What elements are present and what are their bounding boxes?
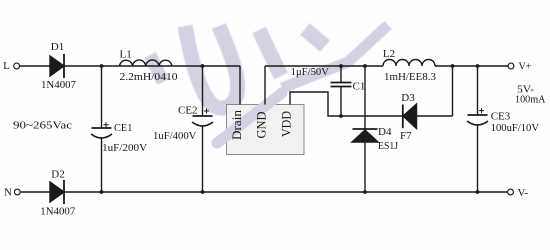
svg-text:2.2mH/0410: 2.2mH/0410 [120, 71, 179, 83]
watermark diagonal stripe upper [282, 25, 388, 88]
svg-text:L2: L2 [383, 48, 395, 60]
junction top rail CE2 [201, 64, 205, 68]
terminal V+ [508, 63, 514, 69]
terminal N [14, 189, 20, 195]
wire VDD net [290, 92, 403, 116]
svg-text:1mH/EE8.3: 1mH/EE8.3 [384, 71, 436, 83]
terminal V- [508, 189, 514, 195]
inductor L2 [383, 60, 435, 66]
wire D1 to Drain corner [64, 65, 240, 67]
svg-text:N: N [4, 186, 12, 198]
wire Drain pin [239, 66, 241, 105]
IC U1 box [227, 105, 305, 155]
svg-text:L1: L1 [119, 49, 131, 61]
svg-text:GND: GND [255, 112, 269, 139]
bottom rail wire [64, 191, 508, 193]
diode D2 [50, 182, 64, 202]
svg-text:90~265Vac: 90~265Vac [13, 119, 72, 131]
svg-text:D1: D1 [51, 41, 64, 53]
svg-text:1N4007: 1N4007 [40, 206, 75, 218]
svg-text:D2: D2 [51, 169, 64, 181]
svg-text:ES1J: ES1J [378, 140, 399, 152]
svg-text:V-: V- [518, 187, 529, 199]
svg-text:1μF/50V: 1μF/50V [291, 66, 329, 78]
wire L to D1 [19, 65, 50, 67]
junction rail D3 riser [451, 64, 455, 68]
svg-text:C1: C1 [353, 81, 366, 93]
svg-text:V+: V+ [519, 61, 532, 73]
svg-text:100uF/10V: 100uF/10V [491, 122, 539, 134]
svg-text:100mA: 100mA [515, 94, 546, 106]
junction bottom CE1 [100, 190, 104, 194]
junction VDD C1 bottom [339, 114, 343, 118]
diode D1 [50, 56, 64, 76]
svg-text:1uF/400V: 1uF/400V [153, 130, 196, 142]
svg-text:CE2: CE2 [178, 104, 198, 116]
watermark stroke second letter left arm [259, 30, 281, 76]
wire riser to output rail [452, 66, 454, 116]
svg-text:1uF/200V: 1uF/200V [102, 142, 147, 154]
wire GND pin riser [264, 66, 266, 105]
junction rail D4 [363, 64, 367, 68]
wire GND rail to L2 [265, 65, 383, 67]
watermark stroke left small [150, 55, 163, 82]
svg-text:CE3: CE3 [491, 111, 511, 123]
diode D3 [403, 104, 417, 129]
watermark stripe over IC [217, 93, 282, 143]
wire D4 branch upper [364, 66, 366, 130]
svg-text:D4: D4 [378, 126, 392, 138]
wire D4 branch lower [364, 142, 366, 192]
junction bottom CE2 [201, 190, 205, 194]
wire L2 to V+ [435, 65, 508, 67]
junction top rail CE1 [100, 64, 104, 68]
circuit wires and symbols [14, 54, 514, 204]
watermark stroke second letter right arm [305, 29, 325, 46]
junction rail CE3 [476, 64, 480, 68]
svg-text:F7: F7 [400, 130, 412, 142]
inductor L1 [120, 60, 173, 66]
capacitor CE1 [101, 66, 103, 128]
svg-text:VDD: VDD [280, 111, 294, 137]
svg-text:CE1: CE1 [114, 122, 132, 134]
terminal L [14, 63, 20, 69]
svg-text:D3: D3 [401, 92, 415, 104]
capacitor C1 [340, 66, 342, 83]
diode D4 [353, 128, 378, 130]
capacitor CE2 [202, 66, 204, 116]
svg-text:Drain: Drain [230, 109, 244, 140]
junction bottom D4 [363, 190, 367, 194]
capacitor CE3 [477, 66, 479, 115]
watermark letter U [185, 26, 238, 108]
wire D3 cathode to riser [417, 115, 453, 117]
junction rail C1 [339, 64, 343, 68]
svg-text:1N4007: 1N4007 [41, 79, 76, 91]
junction bottom CE3 [476, 190, 480, 194]
wire N to D2 [20, 191, 50, 193]
svg-text:L: L [3, 60, 10, 72]
